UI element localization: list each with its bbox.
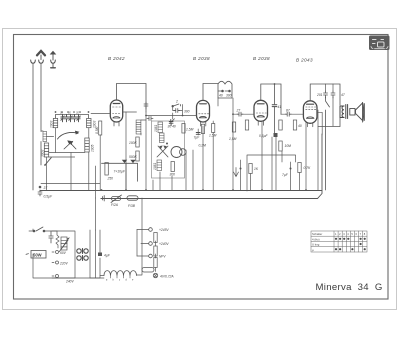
svg-text:37: 37 — [44, 186, 48, 190]
svg-text:B 2043: B 2043 — [296, 58, 313, 63]
svg-text:2: 2 — [175, 100, 178, 104]
AVC arrow — [234, 168, 239, 177]
svg-text:7+10µF: 7+10µF — [114, 170, 126, 174]
svg-text:500K: 500K — [129, 155, 138, 159]
resistor 1,5M — [232, 122, 235, 132]
trimmer 30/40 — [169, 119, 174, 126]
lower coil L4 — [85, 138, 89, 152]
oscillator assembly box — [152, 121, 185, 178]
table dots — [335, 238, 366, 251]
svg-text:87: 87 — [286, 109, 290, 113]
svg-text:1: 1 — [335, 232, 337, 236]
coupling capacitor C into V3 — [237, 112, 243, 116]
wire speaker bottom — [318, 118, 340, 127]
svg-text:300: 300 — [226, 94, 232, 98]
osc coil C — [157, 160, 162, 171]
fuse F/2A — [111, 195, 122, 203]
svg-text:4 (Hz): 4 (Hz) — [312, 237, 320, 241]
svg-text:7µF: 7µF — [194, 136, 201, 140]
wavechange switch blade — [45, 158, 51, 165]
resistor term3 — [154, 258, 157, 268]
svg-text:a: a — [106, 280, 108, 282]
svg-text:1,5M: 1,5M — [209, 134, 217, 138]
wire V4 plate side to right rail — [317, 112, 322, 135]
wire antenna 2 down — [41, 63, 54, 165]
svg-text:1061: 1061 — [153, 162, 157, 170]
tube V4 B2043 envelope — [303, 101, 317, 127]
wire cap stubs — [326, 84, 334, 126]
lower coil L3 — [44, 143, 48, 157]
switch near V2 grid — [172, 104, 181, 107]
wire humps to terminal — [137, 268, 143, 275]
svg-text:0,5M: 0,5M — [95, 126, 99, 134]
osc switch arrows — [157, 146, 168, 157]
capacitor 4uF — [98, 253, 102, 257]
tube V1 B2042 envelope — [110, 100, 122, 126]
wire humps left join — [100, 275, 104, 277]
resistor 1K — [249, 164, 252, 174]
long vertical wire centre — [125, 112, 127, 190]
capacitor on osc feed — [144, 102, 148, 109]
terminal +245V — [137, 228, 152, 232]
antenna arrow — [37, 51, 45, 60]
svg-text:B 2042: B 2042 — [108, 56, 125, 61]
resistor 100K — [136, 137, 139, 147]
heater winding humps — [104, 271, 137, 278]
dipole symbol — [51, 52, 56, 68]
svg-text:40: 40 — [298, 124, 302, 128]
svg-text:Schalter: Schalter — [312, 232, 322, 236]
svg-text:B 2038: B 2038 — [253, 56, 270, 61]
mains plug symbol — [101, 196, 112, 202]
wire grid V4 — [281, 113, 303, 115]
AVC network box wire — [247, 155, 296, 191]
svg-text:27: 27 — [236, 109, 241, 113]
wire antenna 1 down — [32, 63, 34, 190]
capacitor 201 on output line — [324, 91, 328, 98]
capacitor into osc box — [147, 117, 153, 121]
svg-text:1005: 1005 — [91, 144, 95, 152]
svg-text:c: c — [119, 280, 121, 282]
resistor 500K — [136, 151, 139, 161]
main bus wire lower — [101, 134, 322, 199]
wire V2 cathode down — [202, 126, 204, 190]
svg-text:240V: 240V — [65, 280, 75, 284]
wire switch to bottom — [33, 229, 104, 278]
svg-text:U kng: U kng — [312, 243, 320, 247]
short bus top-left — [41, 183, 100, 185]
svg-text:0,5µF: 0,5µF — [44, 195, 53, 199]
output transformer — [340, 105, 348, 119]
resistor 1,5M grid V2 — [182, 124, 185, 134]
resistor 250 — [105, 163, 108, 176]
tone switch — [326, 97, 330, 190]
resistor term2 — [154, 246, 157, 256]
table header numbers — [335, 232, 366, 236]
heater winding tap labels — [106, 280, 134, 282]
capacitor 0,5uF at left — [38, 186, 42, 196]
loudspeaker — [350, 103, 365, 123]
wires bandfilter to ground bus — [47, 121, 101, 198]
capacitor 7uF cathode V2 — [196, 133, 200, 135]
capacitor in detector line — [272, 105, 277, 107]
wire bandfilter mid — [49, 153, 85, 158]
wire IF1 down — [218, 98, 233, 190]
svg-text:5: 5 — [351, 232, 353, 236]
logo stamp top-right — [369, 36, 390, 51]
svg-text:50W: 50W — [33, 253, 42, 258]
padder circle small — [180, 149, 187, 156]
antenna hook 2 — [39, 60, 44, 63]
capacitor osc to grid — [174, 109, 180, 113]
svg-text:+240V: +240V — [159, 242, 169, 246]
voltage table — [311, 231, 367, 252]
svg-text:Minerva 34 G: Minerva 34 G — [316, 282, 383, 293]
svg-text:1003: 1003 — [49, 120, 53, 128]
osc coil A — [158, 122, 163, 133]
terminal +240V — [141, 242, 152, 246]
volume potentiometer line — [102, 163, 138, 190]
wire terminals vertical — [137, 230, 156, 272]
transformer fuse — [56, 231, 59, 248]
svg-text:F/2A: F/2A — [111, 203, 119, 207]
pot wiper arrows — [122, 160, 136, 163]
svg-text:100K: 100K — [129, 141, 138, 145]
svg-text:B 2038: B 2038 — [193, 56, 210, 61]
svg-text:µ: µ — [312, 248, 314, 252]
svg-text:1061: 1061 — [154, 124, 158, 132]
svg-text:4: 4 — [347, 232, 349, 236]
svg-text:4µF: 4µF — [104, 254, 111, 258]
svg-text:1K: 1K — [254, 167, 259, 171]
svg-text:6: 6 — [356, 232, 358, 236]
svg-text:220V: 220V — [59, 262, 69, 266]
resistor grid V4 — [279, 120, 282, 130]
oscillator coil Losc — [136, 120, 141, 134]
resistor 0,2M — [201, 124, 204, 133]
resistor 10M — [279, 141, 282, 151]
junction dots V2 grid — [182, 115, 184, 117]
svg-text:8: 8 — [364, 232, 366, 236]
50W box — [26, 251, 46, 259]
wire V3 anode top run — [261, 84, 281, 133]
svg-text:1,5M: 1,5M — [229, 137, 237, 141]
tap circle 240V — [52, 275, 59, 278]
svg-text:47: 47 — [341, 93, 345, 97]
svg-text:1,5M: 1,5M — [186, 128, 194, 132]
wire osc cap run — [173, 105, 183, 120]
svg-text:300: 300 — [184, 110, 190, 114]
resistor screen V2 — [212, 124, 215, 133]
schematic border frame — [14, 35, 389, 300]
wires AVC verticals — [241, 110, 319, 191]
terminal NFV — [137, 254, 152, 258]
resistor 0,7K — [298, 163, 301, 173]
transformer core windings — [77, 249, 88, 261]
svg-text:7: 7 — [360, 232, 362, 236]
svg-text:40: 40 — [219, 94, 223, 98]
band switch wiper arc — [58, 131, 79, 149]
svg-text:3: 3 — [343, 232, 345, 236]
tap circle 220V — [52, 261, 59, 264]
svg-text:e: e — [132, 280, 134, 282]
input bandfilter coil L2 — [87, 118, 91, 127]
svg-text:d: d — [126, 280, 128, 282]
main bus wire upper — [40, 190, 322, 192]
trimmer labels — [60, 112, 79, 115]
svg-text:NFV: NFV — [159, 255, 166, 259]
junction dot osc — [166, 143, 168, 145]
svg-text:0,7K: 0,7K — [304, 166, 312, 170]
wire mains down — [96, 198, 143, 268]
svg-text:30 40: 30 40 — [168, 125, 176, 129]
wire V2 anode to IF1 — [203, 84, 218, 101]
svg-text:0,5µF: 0,5µF — [259, 134, 268, 138]
wire V1 anode top run — [117, 84, 147, 113]
tube V3 B2038 envelope — [254, 100, 268, 125]
svg-text:60V: 60V — [60, 251, 67, 255]
wire grid V1 — [91, 113, 111, 115]
table row labels — [312, 232, 322, 252]
fuse F/3B — [127, 196, 138, 200]
antenna hook 1 — [31, 60, 36, 63]
svg-text:30: 30 — [76, 112, 79, 115]
resistor 50K — [245, 120, 248, 130]
tap circle 60V — [52, 251, 59, 254]
resistor term1 — [154, 233, 157, 243]
coupling coil on antenna lead — [43, 132, 47, 142]
IF transformer T1 — [218, 81, 232, 98]
voltage selector — [59, 237, 69, 252]
wire grid V3 — [233, 113, 254, 115]
wire V4 anode top run — [310, 84, 340, 105]
resistor 40 — [293, 120, 296, 130]
wires oscillator verticals — [141, 112, 193, 190]
capacitor mains 0,1uF — [49, 231, 53, 243]
pilot lamp — [153, 273, 157, 277]
wire screen V2 down — [198, 121, 213, 190]
svg-text:201: 201 — [316, 93, 323, 97]
capacitor 47 on output line — [331, 91, 335, 98]
capacitor 0,5uF block — [274, 133, 278, 137]
svg-text:0,2M: 0,2M — [199, 144, 207, 148]
svg-text:F/3B: F/3B — [128, 204, 136, 208]
junction dot right — [290, 168, 292, 170]
primary winding line — [52, 231, 75, 278]
secondary verticals — [90, 230, 100, 278]
svg-text:2: 2 — [339, 232, 341, 236]
junction dots — [55, 111, 90, 113]
wire grid V2 — [146, 115, 197, 117]
4V winding box — [142, 268, 154, 273]
junction dots on bus — [101, 189, 307, 191]
mains switch — [29, 227, 57, 232]
junction dot left — [240, 168, 242, 170]
wire anode V1 to osc — [123, 112, 146, 120]
svg-text:3003: 3003 — [41, 149, 45, 157]
osc coil B — [160, 133, 165, 143]
coupling capacitor C into V4 — [285, 112, 291, 116]
padder circle large — [171, 147, 182, 158]
resistor 300 — [171, 162, 174, 172]
trimmer capacitors row — [61, 115, 80, 122]
svg-text:41: 41 — [278, 105, 282, 109]
svg-text:+245V: +245V — [159, 228, 169, 232]
svg-text:b: b — [113, 280, 115, 282]
svg-text:250: 250 — [107, 177, 114, 181]
svg-text:10M: 10M — [285, 144, 292, 148]
input bandfilter coil L1 — [53, 118, 57, 127]
svg-text:4V/0,72A: 4V/0,72A — [160, 275, 174, 279]
tube V2 B2038 envelope — [197, 100, 210, 126]
wire top of bandfilter — [56, 115, 89, 119]
resistor input 0,5M — [99, 121, 102, 135]
svg-text:7µF: 7µF — [282, 173, 289, 177]
